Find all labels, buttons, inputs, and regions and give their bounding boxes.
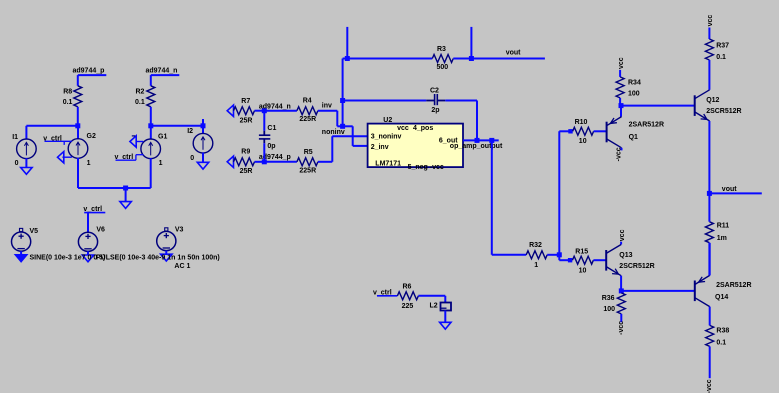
wire	[151, 125, 203, 127]
net label vout (right)	[722, 186, 737, 193]
net label ad9744_p	[73, 67, 107, 75]
svg-text:0.1: 0.1	[63, 99, 73, 106]
V5 value SINE	[30, 254, 106, 261]
wire	[418, 295, 445, 297]
R3 label	[437, 46, 446, 53]
svg-text:op_amp_output: op_amp_output	[450, 143, 503, 150]
svg-text:1m: 1m	[717, 235, 727, 242]
svg-text:R36: R36	[602, 295, 615, 302]
wire	[558, 131, 560, 255]
Q1 type 2SAR512R	[629, 121, 664, 128]
R9 value 25R	[240, 168, 253, 175]
R32 value 1	[534, 262, 538, 269]
node junction	[475, 138, 480, 143]
wire	[620, 314, 622, 322]
resistor R4	[297, 107, 318, 115]
svg-text:R37: R37	[716, 43, 729, 50]
resistor R7	[234, 107, 255, 115]
resistor R5	[297, 158, 318, 166]
wire	[332, 135, 367, 137]
G1 value 1	[159, 160, 163, 167]
svg-text:0: 0	[15, 160, 19, 167]
svg-text:225R: 225R	[299, 116, 316, 123]
svg-text:ad9744_n: ad9744_n	[259, 104, 291, 111]
wire	[708, 28, 710, 40]
wire	[445, 100, 477, 102]
wire	[708, 243, 710, 276]
node junction	[123, 186, 128, 191]
V6 value PULSE	[96, 254, 220, 261]
wire	[126, 187, 151, 189]
inductor L2	[441, 303, 452, 311]
svg-text:R38: R38	[716, 327, 729, 334]
R36 label	[602, 295, 615, 302]
svg-text:R9: R9	[241, 149, 250, 156]
wire	[620, 276, 622, 291]
svg-text:R6: R6	[403, 284, 412, 291]
svg-text:R15: R15	[575, 248, 588, 255]
node junction	[619, 288, 624, 293]
svg-text:R34: R34	[628, 79, 641, 86]
U2 pin 5_neg	[408, 164, 428, 171]
C2 label	[430, 87, 439, 94]
wire	[708, 60, 710, 90]
Q14 type 2SAR512R	[716, 282, 751, 289]
wire	[77, 75, 79, 86]
svg-text:noninv: noninv	[322, 129, 345, 136]
svg-text:225: 225	[402, 303, 414, 310]
wire	[331, 136, 333, 162]
resistor R32	[526, 251, 547, 259]
wire	[343, 125, 353, 127]
svg-text:V3: V3	[175, 227, 184, 234]
v_ctrl flag at G2	[43, 135, 71, 145]
svg-text:100: 100	[603, 306, 615, 313]
v_ctrl flag at G1	[115, 154, 144, 161]
svg-text:Q14: Q14	[715, 294, 728, 301]
I1 value 0	[15, 160, 19, 167]
svg-text:1: 1	[534, 262, 538, 269]
U2 pin -vcc	[430, 164, 444, 171]
V5 label	[30, 228, 39, 235]
net label ad9744_n (mid)	[259, 104, 291, 111]
svg-text:2SCR512R: 2SCR512R	[619, 263, 654, 270]
svg-text:5_neg: 5_neg	[408, 164, 428, 171]
svg-text:R4: R4	[303, 97, 312, 104]
svg-text:-vcc: -vcc	[618, 321, 625, 335]
svg-text:vcc: vcc	[618, 57, 625, 69]
v_ctrl flag at V6	[83, 206, 105, 213]
svg-text:U2: U2	[383, 117, 392, 124]
R4 label	[303, 97, 312, 104]
wire	[264, 110, 297, 112]
wire	[559, 259, 570, 261]
v_ctrl flag at R6	[373, 289, 397, 296]
net label inv	[322, 102, 332, 109]
svg-text:Q1: Q1	[629, 134, 638, 141]
resistor R37	[705, 39, 713, 60]
net label vcc (R37)	[707, 15, 714, 27]
L2 label	[430, 303, 438, 310]
ground	[130, 136, 143, 147]
wire	[708, 193, 710, 221]
node junction	[469, 56, 474, 61]
svg-text:3_noninv: 3_noninv	[371, 133, 402, 140]
svg-text:10: 10	[579, 267, 587, 274]
capacitor C1	[259, 131, 270, 143]
resistor R38	[706, 325, 714, 346]
resistor R2	[147, 86, 155, 107]
ground	[440, 322, 451, 329]
svg-text:AC 1: AC 1	[174, 263, 190, 270]
resistor R15	[572, 256, 593, 264]
wire	[165, 230, 167, 233]
transistor Q1	[607, 117, 622, 148]
node vout junction	[707, 191, 712, 196]
current source I1	[17, 139, 37, 159]
Q12 type 2SCR512R	[706, 108, 741, 115]
wire	[337, 125, 342, 127]
svg-text:R11: R11	[717, 223, 730, 230]
wire	[26, 125, 77, 127]
svg-text:0.1: 0.1	[716, 54, 726, 61]
net label -vcc (R38)	[706, 379, 713, 393]
R34 value 100	[628, 91, 640, 98]
wire	[87, 213, 89, 233]
svg-text:C2: C2	[430, 87, 439, 94]
svg-text:vcc: vcc	[397, 125, 409, 132]
wire	[264, 161, 297, 163]
svg-text:2SAR512R: 2SAR512R	[629, 121, 664, 128]
wire	[709, 243, 711, 275]
U2 pin 3_noninv	[371, 133, 402, 140]
svg-text:0: 0	[190, 155, 194, 162]
svg-text:2SAR512R: 2SAR512R	[716, 282, 751, 289]
svg-text:-vcc: -vcc	[430, 164, 444, 171]
wire	[559, 130, 570, 132]
R6 label	[403, 284, 412, 291]
wire	[708, 121, 710, 193]
R11 value 1m	[717, 235, 727, 242]
svg-text:Q13: Q13	[619, 252, 632, 259]
node junction	[75, 123, 80, 128]
wire	[463, 139, 499, 141]
node ad9744_p junction	[262, 159, 267, 164]
net label vcc (Q13)	[619, 229, 626, 241]
wire	[255, 110, 265, 112]
svg-text:25R: 25R	[240, 118, 253, 125]
ground	[15, 251, 26, 261]
R37 value 0.1	[716, 54, 726, 61]
svg-text:R8: R8	[63, 88, 72, 95]
voltage source V5	[12, 232, 31, 251]
net label vout (top)	[506, 50, 521, 57]
U2 pin 2_inv	[371, 144, 389, 151]
G2 label	[87, 133, 96, 140]
wire	[343, 58, 433, 60]
svg-text:vcc: vcc	[707, 15, 714, 27]
wire stub	[470, 27, 472, 59]
U2 label	[383, 117, 392, 124]
svg-text:R3: R3	[437, 46, 446, 53]
G2 value 1	[87, 160, 91, 167]
capacitor C2	[426, 94, 445, 105]
ground	[21, 158, 32, 174]
wire	[620, 106, 622, 117]
node ad9744_n junction	[262, 108, 267, 113]
R3 value 500	[437, 64, 449, 71]
wire	[150, 75, 152, 86]
U2 name LM7171	[375, 160, 401, 167]
I2 value 0	[190, 155, 194, 162]
transistor Q13	[606, 245, 621, 276]
wire	[255, 161, 265, 163]
node inv junction	[340, 124, 345, 129]
wire	[558, 255, 560, 260]
resistor R3	[432, 55, 453, 63]
wire	[621, 105, 695, 107]
wire	[20, 231, 22, 234]
wire	[25, 126, 27, 140]
R38 value 0.1	[716, 340, 726, 347]
resistor R8	[74, 86, 82, 107]
wire	[709, 307, 711, 326]
ground	[227, 105, 233, 116]
wire end dot	[568, 258, 572, 262]
wire	[619, 98, 621, 106]
node junction	[557, 252, 562, 257]
net label op_amp_output	[450, 143, 503, 150]
svg-text:0.1: 0.1	[716, 340, 726, 347]
vccs G1	[141, 139, 161, 159]
R8 value 0.1	[63, 99, 73, 106]
wire	[444, 311, 446, 323]
R7 value 25R	[240, 118, 253, 125]
R4 value 225R	[299, 116, 316, 123]
wire	[619, 70, 621, 77]
transistor Q12	[695, 90, 710, 121]
R2 value 0.1	[135, 99, 145, 106]
svg-text:ad9744_p: ad9744_p	[73, 67, 105, 74]
R5 label	[304, 149, 313, 156]
Q13 label	[619, 252, 632, 259]
wire	[620, 242, 622, 245]
svg-text:G2: G2	[87, 133, 96, 140]
svg-text:R7: R7	[241, 98, 250, 105]
svg-text:V6: V6	[96, 227, 105, 234]
node junction	[148, 123, 153, 128]
Q13 type 2SCR512R	[619, 263, 654, 270]
voltage source V3	[157, 231, 176, 250]
resistor R36	[617, 293, 625, 314]
wire	[77, 107, 79, 126]
V6 label	[96, 227, 105, 234]
port square	[165, 228, 168, 231]
wire	[621, 148, 623, 151]
R34 label	[628, 79, 641, 86]
wire	[318, 161, 332, 163]
wire	[150, 126, 152, 140]
wire	[202, 119, 204, 134]
svg-text:vout: vout	[506, 50, 521, 57]
V3 label	[175, 227, 184, 234]
resistor R9	[234, 158, 255, 166]
svg-text:I2: I2	[187, 128, 193, 135]
resistor R6	[397, 292, 418, 300]
wire	[621, 290, 695, 292]
resistor R10	[573, 127, 594, 135]
Q12 label	[706, 97, 719, 104]
wire	[492, 254, 526, 256]
wire	[78, 187, 126, 189]
wire	[263, 111, 265, 131]
wire	[343, 100, 427, 102]
svg-text:PULSE(0 10e-3 40e-9 1n 1n 50n: PULSE(0 10e-3 40e-9 1n 1n 50n 100n)	[96, 254, 220, 261]
wire	[150, 158, 152, 188]
wire stub	[346, 27, 348, 59]
R15 label	[575, 248, 588, 255]
R37 label	[716, 43, 729, 50]
svg-text:225R: 225R	[299, 167, 316, 174]
svg-text:25R: 25R	[240, 168, 253, 175]
svg-text:R2: R2	[136, 88, 145, 95]
svg-text:ad9744_n: ad9744_n	[146, 67, 178, 74]
wire	[336, 111, 338, 127]
svg-text:0.1: 0.1	[135, 99, 145, 106]
wire	[709, 346, 711, 378]
R6 value 225	[402, 303, 414, 310]
wire	[263, 143, 265, 162]
svg-text:R32: R32	[529, 242, 542, 249]
svg-text:R5: R5	[304, 149, 313, 156]
svg-text:LM7171: LM7171	[375, 160, 401, 167]
ground	[120, 188, 131, 208]
net label ad9744_p (mid)	[259, 154, 291, 161]
net label vcc (R34)	[618, 57, 625, 69]
svg-text:-vcc: -vcc	[615, 147, 622, 161]
wire	[593, 259, 606, 261]
wire	[318, 110, 337, 112]
Q1 label	[629, 134, 638, 141]
svg-text:inv: inv	[322, 102, 332, 109]
svg-text:G1: G1	[158, 133, 167, 140]
V3 value AC 1	[174, 263, 190, 270]
R38 label	[716, 327, 729, 334]
svg-text:2_inv: 2_inv	[371, 144, 389, 151]
wire	[352, 126, 354, 146]
svg-text:2SCR512R: 2SCR512R	[706, 108, 741, 115]
node junction	[340, 98, 345, 103]
R15 value 10	[579, 267, 587, 274]
svg-text:L2: L2	[430, 303, 438, 310]
wire	[353, 145, 368, 147]
wire	[547, 254, 559, 256]
R11 label	[717, 223, 730, 230]
svg-text:100: 100	[628, 91, 640, 98]
U2 pin 6_out	[439, 137, 458, 144]
wire	[77, 158, 79, 188]
R32 label	[529, 242, 542, 249]
svg-text:I1: I1	[12, 134, 18, 141]
svg-text:R10: R10	[575, 119, 588, 126]
C2 value 2p	[431, 107, 439, 114]
wire	[491, 140, 493, 254]
wire	[342, 59, 344, 127]
U2 pin 4_pos	[413, 125, 433, 132]
transistor Q14	[695, 275, 710, 306]
ground	[161, 251, 172, 261]
resistor R11	[705, 222, 713, 243]
svg-text:0p: 0p	[267, 143, 275, 150]
node junction	[619, 103, 624, 108]
R2 label	[136, 88, 145, 95]
svg-text:1: 1	[159, 160, 163, 167]
svg-text:-vcc: -vcc	[706, 379, 713, 393]
voltage source V6	[78, 232, 97, 251]
wire	[709, 192, 761, 194]
I2 label	[187, 128, 193, 135]
R10 label	[575, 119, 588, 126]
R9 label	[241, 149, 250, 156]
node junction	[345, 56, 350, 61]
C1 value 0p	[267, 143, 275, 150]
svg-text:SINE(0 10e-3 1e7 0 0 5): SINE(0 10e-3 1e7 0 0 5)	[30, 254, 106, 261]
resistor R34	[616, 77, 624, 98]
svg-text:4_pos: 4_pos	[413, 125, 433, 132]
C1 label	[267, 125, 276, 132]
Q14 label	[715, 294, 728, 301]
wire end dot	[568, 129, 572, 133]
ground	[197, 153, 208, 170]
svg-text:2p: 2p	[431, 107, 439, 114]
net label -vcc (Q1)	[615, 147, 622, 161]
op-amp U2 box	[368, 124, 463, 168]
svg-text:C1: C1	[267, 125, 276, 132]
wire	[150, 107, 152, 126]
net label noninv	[322, 129, 345, 136]
port square	[20, 228, 23, 231]
svg-text:1: 1	[87, 160, 91, 167]
R5 value 225R	[299, 167, 316, 174]
wire	[444, 296, 446, 303]
node junction	[489, 138, 494, 143]
svg-text:vout: vout	[722, 186, 737, 193]
wire	[594, 130, 607, 132]
ground	[82, 251, 93, 261]
R7 label	[241, 98, 250, 105]
vccs G2	[68, 139, 88, 159]
R8 label	[63, 88, 72, 95]
ground	[58, 152, 72, 163]
net label -vcc (R36)	[618, 321, 625, 335]
node junction	[201, 123, 206, 128]
svg-text:V5: V5	[30, 228, 39, 235]
ground	[227, 156, 233, 167]
svg-text:500: 500	[437, 64, 449, 71]
current source I2	[193, 133, 213, 153]
svg-text:10: 10	[579, 138, 587, 145]
wire	[476, 101, 478, 141]
R10 value 10	[579, 138, 587, 145]
wire	[77, 126, 79, 139]
wire	[453, 58, 545, 60]
net label ad9744_n	[146, 67, 180, 75]
R36 value 100	[603, 306, 615, 313]
G1 label	[158, 133, 167, 140]
svg-text:vcc: vcc	[619, 229, 626, 241]
U2 pin vcc	[397, 125, 409, 132]
svg-text:Q12: Q12	[706, 97, 719, 104]
